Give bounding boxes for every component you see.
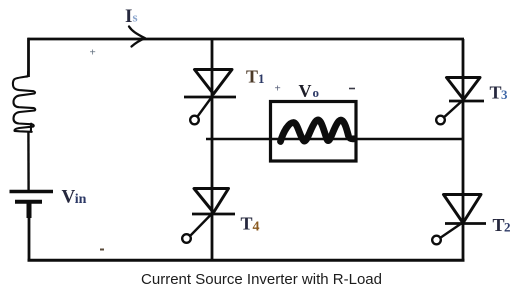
thyristor T2 bbox=[432, 195, 486, 245]
resistor squiggle (R load) bbox=[281, 120, 355, 142]
wire load horizontal bbox=[206, 138, 463, 141]
caption bbox=[2, 271, 519, 288]
wire left upper bbox=[27, 38, 30, 77]
battery stub bbox=[27, 202, 32, 218]
wire bottom bbox=[28, 259, 465, 262]
inductor Ls bbox=[13, 72, 35, 132]
thyristor T1 bbox=[184, 70, 236, 125]
svg-text:T: T bbox=[241, 214, 253, 234]
svg-text:3: 3 bbox=[501, 87, 508, 102]
svg-text:V: V bbox=[62, 186, 76, 207]
wire top bbox=[28, 38, 465, 41]
svg-text:T: T bbox=[493, 215, 505, 235]
svg-text:o: o bbox=[313, 85, 320, 100]
battery Vin plate bottom bbox=[15, 200, 42, 204]
thyristor T3 bbox=[436, 78, 484, 125]
current arrow Is bbox=[129, 27, 145, 47]
wire middle vertical bbox=[211, 39, 214, 261]
battery Vin plate top bbox=[10, 190, 54, 193]
minus sign near Vo bbox=[349, 88, 355, 90]
svg-text:V: V bbox=[299, 81, 312, 101]
svg-text:I: I bbox=[125, 6, 132, 27]
svg-text:in: in bbox=[75, 192, 87, 207]
wire left mid (inductor to battery) bbox=[27, 132, 30, 191]
svg-text:1: 1 bbox=[258, 71, 265, 86]
svg-text:2: 2 bbox=[504, 220, 511, 235]
wire left lower bbox=[28, 216, 31, 261]
svg-text:+: + bbox=[90, 47, 96, 59]
svg-text:+: + bbox=[275, 83, 281, 95]
svg-text:T: T bbox=[490, 82, 502, 102]
minus mark bottom-left bbox=[100, 249, 104, 251]
svg-text:T: T bbox=[246, 66, 258, 86]
svg-text:s: s bbox=[133, 10, 138, 25]
load box bbox=[271, 102, 357, 162]
thyristor T4 bbox=[182, 189, 235, 243]
svg-text:4: 4 bbox=[253, 219, 260, 234]
wire right bbox=[462, 39, 465, 261]
